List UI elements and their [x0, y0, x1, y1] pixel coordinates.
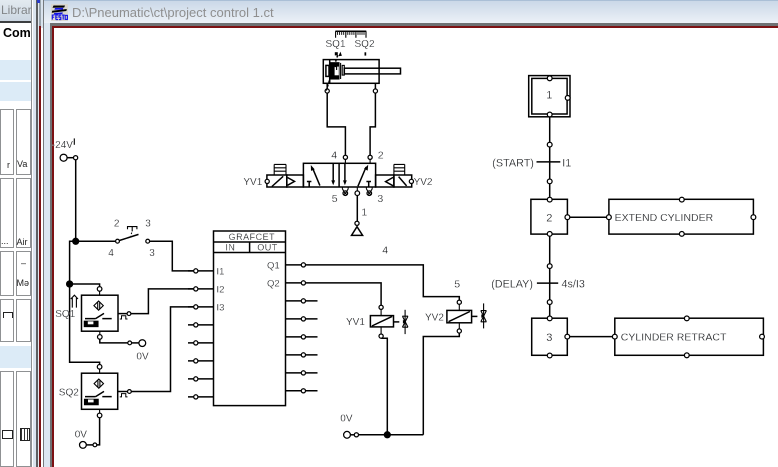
- svg-text:YV2: YV2: [425, 312, 444, 323]
- svg-text:Q1: Q1: [267, 260, 280, 271]
- library component cells: [0, 109, 14, 175]
- proximity switch SQ2: [82, 365, 132, 418]
- wire 24V rail: [70, 160, 100, 365]
- SQ1 0V terminal: [100, 339, 128, 343]
- svg-text:I1: I1: [217, 267, 225, 278]
- right square: arrow up-right: [358, 167, 366, 186]
- solenoid YV1 (left pilot): [265, 164, 303, 187]
- junction A (24V rail / switch): [73, 238, 79, 244]
- left square: arrow up-left: [313, 168, 320, 185]
- block output pins: [286, 263, 318, 393]
- svg-text:5: 5: [332, 193, 338, 205]
- svg-text:YV1: YV1: [243, 177, 262, 188]
- chain wire 1-2: [549, 117, 551, 197]
- wire cylinder-left to valve port 4: [327, 93, 345, 155]
- svg-text:1: 1: [546, 90, 552, 102]
- port 1 line + exhaust: [356, 187, 358, 191]
- svg-text:2: 2: [378, 149, 384, 161]
- relay coil YV1: [379, 305, 383, 309]
- svg-text:3: 3: [546, 332, 552, 344]
- wire SQ2 to I3: [131, 307, 193, 392]
- wire YV1 to 0V: [381, 338, 387, 435]
- svg-text:YV2: YV2: [414, 177, 433, 188]
- marker link dashed line: [326, 55, 338, 90]
- svg-text:Q2: Q2: [267, 278, 280, 289]
- action box CYLINDER RETRACT: [612, 316, 764, 358]
- FESTO icon: [51, 4, 68, 21]
- svg-text:OUT: OUT: [257, 243, 278, 253]
- silencer port 5: [342, 187, 348, 196]
- chain wire 2-3: [549, 236, 551, 316]
- manual override ladder: [274, 164, 286, 175]
- wire step3 to action: [570, 336, 613, 338]
- svg-text:(START): (START): [492, 157, 534, 169]
- svg-text:I1: I1: [562, 157, 571, 169]
- step 2: [531, 197, 570, 236]
- valve 5/2 body: [303, 163, 375, 187]
- svg-text:EXTEND CYLINDER: EXTEND CYLINDER: [615, 212, 714, 224]
- node above transition 1: [547, 142, 552, 147]
- cylinder port stems: [326, 83, 328, 88]
- wire junction to SQ1 top: [70, 284, 100, 287]
- svg-text:(DELAY): (DELAY): [491, 278, 533, 290]
- svg-text:IN: IN: [225, 243, 235, 253]
- GRAFCET chain: step 1 (initial): [529, 76, 570, 117]
- svg-text:I2: I2: [217, 285, 225, 296]
- step 3: [532, 316, 570, 358]
- svg-text:4s/I3: 4s/I3: [562, 278, 585, 290]
- svg-text:-24V: -24V: [52, 140, 73, 151]
- YV1 valve icon: [402, 310, 408, 334]
- svg-text:SQ2: SQ2: [355, 39, 375, 50]
- relay coil YV2: [457, 300, 461, 304]
- svg-text:2: 2: [546, 212, 552, 224]
- junction C (0V rail / YV1): [384, 432, 390, 438]
- svg-text:SQ1: SQ1: [55, 309, 75, 320]
- svg-text:5: 5: [454, 279, 460, 291]
- back circuit window maroon border + canvas sliver: [39, 0, 41, 28]
- svg-text:2: 2: [114, 218, 120, 229]
- exhaust triangle: [352, 227, 363, 236]
- switch S1 (NO contact): [76, 240, 116, 242]
- cylinder 1A1: [323, 60, 400, 84]
- wire YV2 to 0V: [423, 333, 459, 435]
- svg-text:0V: 0V: [340, 413, 353, 424]
- svg-text:SQ1: SQ1: [326, 39, 346, 50]
- svg-text:4: 4: [108, 248, 114, 259]
- action box EXTEND CYLINDER: [607, 197, 756, 236]
- svg-text:4: 4: [382, 245, 388, 257]
- svg-text:CYLINDER RETRACT: CYLINDER RETRACT: [621, 332, 727, 344]
- marker SQ1 (actuated): [335, 52, 342, 57]
- transition START: [537, 161, 561, 163]
- node port 1: [355, 221, 359, 225]
- library window (background, partially visible): [0, 0, 31, 467]
- wire SQ1 to I2: [131, 289, 194, 314]
- SQ2 0V terminal: [97, 418, 100, 445]
- silencer port 3: [366, 187, 372, 196]
- solenoid YV2 (right pilot): [376, 164, 414, 187]
- YV2 valve icon: [481, 303, 487, 328]
- svg-text:4: 4: [331, 149, 337, 161]
- block input pins: [188, 269, 214, 399]
- svg-text:1: 1: [361, 207, 367, 219]
- transition DELAY: [537, 282, 558, 284]
- svg-text:0V: 0V: [136, 352, 149, 363]
- wire cylinder-right to valve port 2: [370, 93, 375, 155]
- wire Q1 to YV2 coil: [306, 265, 460, 300]
- valve top port circles: [343, 155, 347, 159]
- wire switch to I1: [150, 241, 194, 271]
- proximity switch SQ1: [82, 287, 131, 340]
- svg-text:3: 3: [377, 193, 383, 205]
- svg-text:SQ2: SQ2: [59, 387, 79, 398]
- svg-text:YV1: YV1: [346, 317, 365, 328]
- svg-text:GRAFCET: GRAFCET: [229, 232, 276, 242]
- node above transition 2: [547, 264, 552, 269]
- left square: T: [307, 182, 312, 188]
- front window: title bar: [44, 0, 778, 23]
- window edge slivers: [31, 0, 32, 467]
- left square: vertical with down arrow: [332, 163, 334, 180]
- svg-text:3: 3: [149, 248, 155, 259]
- wire Q2 to YV1 coil: [306, 283, 382, 305]
- distance ruler: [335, 31, 366, 38]
- svg-text:3: 3: [145, 218, 151, 229]
- marker SQ2: [365, 52, 367, 55]
- svg-text:0V: 0V: [75, 430, 88, 441]
- node below transition 1: [547, 179, 552, 184]
- node below transition 2: [547, 300, 552, 305]
- right square: vertical with down arrow: [344, 163, 346, 180]
- svg-text:I3: I3: [217, 303, 225, 314]
- GRAFCET block: [214, 231, 286, 406]
- junction B (24V rail / SQ1): [67, 281, 73, 287]
- wire step2 to action: [570, 216, 607, 218]
- right square: T: [366, 182, 371, 188]
- actuated arrow: [71, 295, 78, 307]
